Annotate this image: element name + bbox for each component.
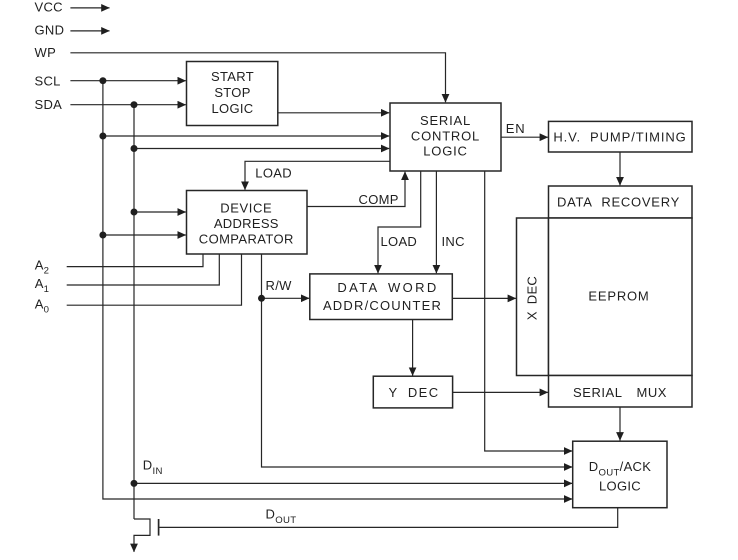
svg-text:START: START	[211, 69, 254, 84]
wire LOAD from serial control to comparator	[245, 161, 390, 190]
block DEVICE ADDRESS COMPARATOR	[187, 191, 308, 255]
node SDA branch junction	[131, 145, 138, 152]
svg-text:A1: A1	[35, 276, 50, 295]
wire VCC stub	[70, 7, 109, 9]
svg-text:SDA: SDA	[35, 97, 63, 112]
svg-text:SERIAL MUX: SERIAL MUX	[573, 385, 667, 400]
wire serial control to dout ack logic	[485, 171, 573, 451]
node SCL junction	[99, 77, 106, 84]
wire A2 input	[67, 254, 203, 267]
node SDA comparator junction	[131, 209, 138, 216]
svg-text:X DEC: X DEC	[524, 276, 539, 320]
svg-text:COMP: COMP	[359, 192, 399, 207]
junction dots	[99, 77, 265, 487]
svg-text:SCL: SCL	[35, 74, 61, 89]
svg-text:A2: A2	[35, 258, 50, 277]
wire INC from serial control to data word counter	[435, 171, 437, 273]
svg-text:LOAD: LOAD	[381, 234, 418, 249]
svg-text:ADDRESS: ADDRESS	[214, 216, 279, 231]
wire SDA branch to serial control logic	[134, 148, 389, 150]
block START STOP LOGIC	[187, 62, 278, 126]
transistor Q1 gate bar	[158, 519, 160, 536]
node R/W junction	[258, 295, 265, 302]
svg-text:DOUT: DOUT	[266, 507, 297, 526]
block DATA RECOVERY	[549, 186, 693, 218]
wire SDA branch to device address comparator	[134, 211, 186, 213]
wire SDA input	[70, 104, 185, 106]
svg-text:DATA WORD: DATA WORD	[337, 280, 438, 295]
svg-text:EEPROM: EEPROM	[588, 288, 649, 303]
block DOUT/ACK LOGIC	[573, 441, 667, 508]
svg-text:GND: GND	[35, 23, 65, 38]
svg-text:COMPARATOR: COMPARATOR	[199, 232, 294, 247]
svg-text:WP: WP	[35, 45, 57, 60]
transistor Q1 open-drain output, drain-source path with ground arrow	[134, 519, 150, 552]
wire data word counter to y dec	[412, 320, 414, 376]
block H.V. PUMP/TIMING	[549, 121, 693, 152]
svg-text:LOGIC: LOGIC	[212, 101, 254, 116]
svg-text:LOAD: LOAD	[255, 166, 292, 181]
wire SDA vertical bus	[133, 105, 135, 519]
wire WP to serial control logic top	[70, 53, 445, 103]
svg-text:H.V. PUMP/TIMING: H.V. PUMP/TIMING	[553, 129, 686, 144]
svg-text:R/W: R/W	[266, 278, 293, 293]
wire GND stub	[70, 30, 109, 32]
block Y DEC	[373, 376, 452, 408]
node SCL comparator junction	[99, 232, 106, 239]
svg-text:SERIAL: SERIAL	[420, 113, 471, 128]
wire EN to hv pump	[501, 136, 548, 138]
block X DEC	[517, 218, 549, 376]
node SDA junction	[131, 101, 138, 108]
wire SCL input	[70, 80, 185, 82]
wire SCL branch to device address comparator	[103, 234, 186, 236]
wire COMP from comparator to serial control	[307, 172, 405, 207]
svg-text:CONTROL: CONTROL	[411, 129, 480, 144]
wire DOUT from dout ack logic to output transistor gate	[159, 508, 617, 528]
svg-text:INC: INC	[442, 234, 465, 249]
block SERIAL MUX	[549, 376, 693, 408]
wire hv pump to data recovery	[619, 152, 621, 185]
wire DIN to dout ack logic	[134, 482, 572, 484]
block DATA WORD ADDR/COUNTER	[310, 274, 453, 320]
svg-text:A0: A0	[35, 296, 50, 315]
svg-text:DIN: DIN	[143, 458, 163, 477]
wire R/W vertical from comparator to dout ack	[262, 254, 573, 467]
wire serial mux to dout ack logic	[619, 407, 621, 440]
wire SCL vertical bus	[103, 81, 572, 499]
svg-text:Y DEC: Y DEC	[389, 385, 440, 400]
svg-text:DATA RECOVERY: DATA RECOVERY	[557, 195, 680, 210]
block EEPROM	[549, 218, 693, 376]
wire A0 input	[67, 254, 242, 305]
wire start stop logic output	[278, 112, 389, 114]
wire SCL branch to serial control logic	[103, 135, 389, 137]
svg-text:STOP: STOP	[214, 85, 250, 100]
svg-text:VCC: VCC	[35, 0, 63, 15]
wire LOAD from serial control to data word counter	[378, 171, 421, 273]
node SCL branch junction	[99, 133, 106, 140]
svg-text:DEVICE: DEVICE	[220, 200, 272, 215]
svg-text:LOGIC: LOGIC	[423, 144, 467, 159]
wire y dec to serial mux	[453, 391, 548, 393]
svg-text:LOGIC: LOGIC	[599, 479, 641, 494]
wire A1 input	[67, 254, 220, 285]
svg-text:ADDR/COUNTER: ADDR/COUNTER	[323, 298, 442, 313]
block SERIAL CONTROL LOGIC	[390, 103, 501, 171]
node DIN junction	[131, 480, 138, 487]
wire data word counter to x dec	[452, 297, 516, 299]
wire R/W to data word counter	[262, 297, 310, 299]
svg-text:EN: EN	[506, 121, 526, 136]
